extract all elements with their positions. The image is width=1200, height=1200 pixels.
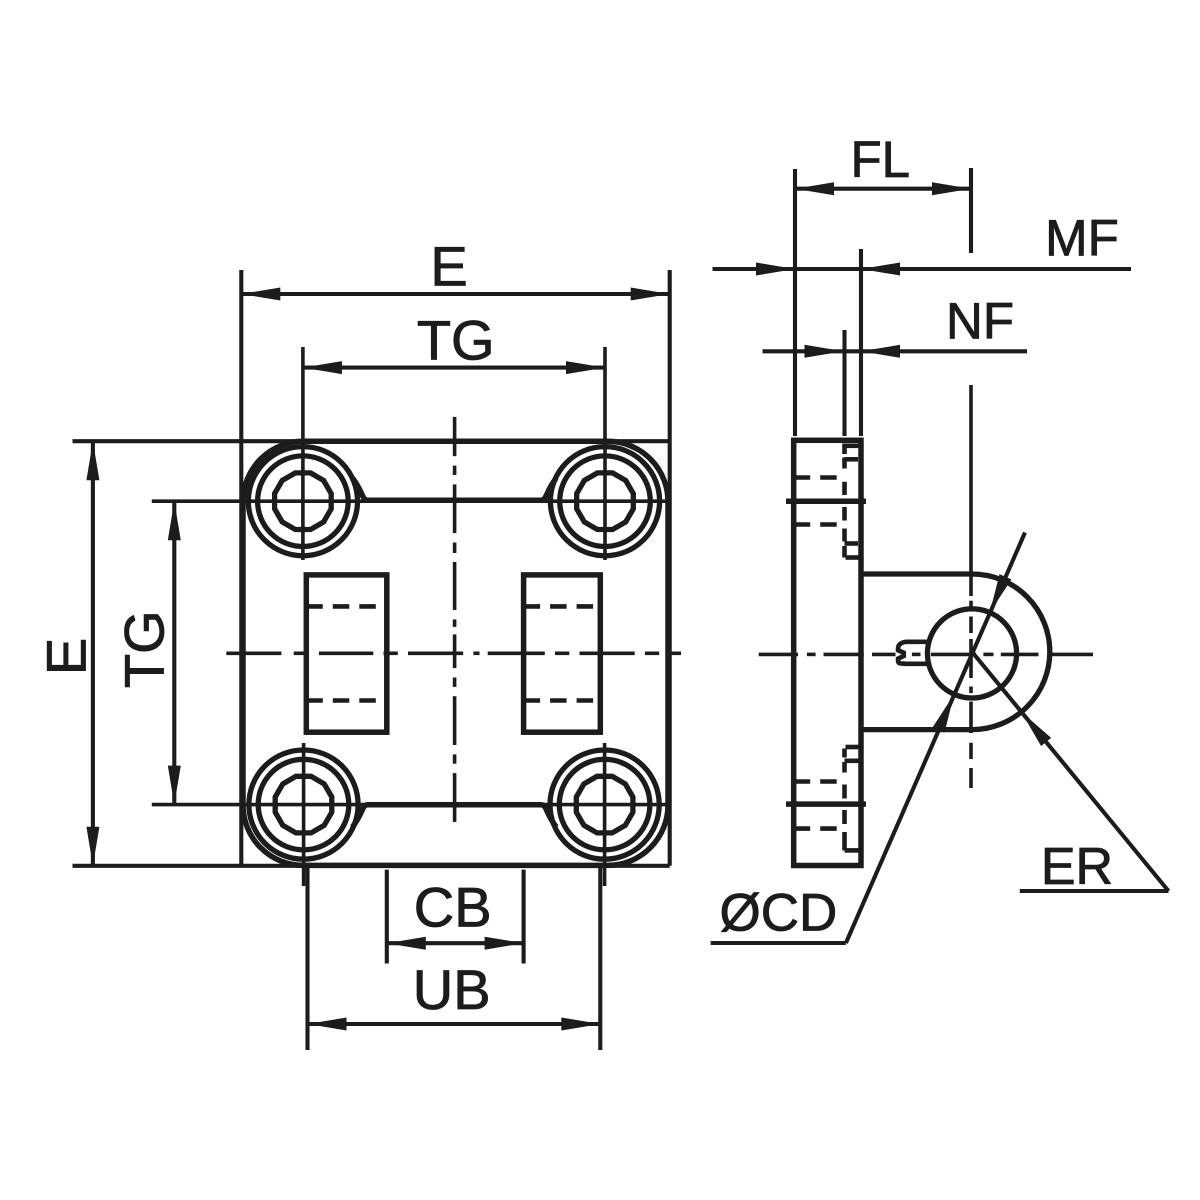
side view: hidden bore lines top hole [794, 475, 845, 480]
clevis eye lug outline [861, 574, 1050, 730]
side view: flange plate outline [794, 440, 861, 865]
front view vertical centerline [453, 417, 457, 456]
svg-text:E: E [35, 638, 98, 675]
milled edge between top bosses [353, 478, 557, 500]
left slot [306, 575, 387, 732]
dimension NF: extension line [842, 330, 846, 436]
front view horizontal centerline [226, 651, 281, 655]
dimension E left: dimension line [91, 441, 95, 866]
dimension UB: dimension line [308, 1022, 601, 1026]
side view: counterbore top hole lower [845, 541, 859, 546]
bottom-left mounting hole boss circle [249, 750, 358, 859]
svg-text:ØCD: ØCD [720, 884, 838, 943]
side view: hidden bore lines bottom hole [794, 779, 845, 784]
dimension ER: radial leader line [972, 652, 1169, 891]
top-right hole vertical centerline (TG extension) [603, 347, 607, 560]
dimension MF: extension line right [859, 249, 863, 436]
bottom-right mounting hole counterbore circle [559, 759, 650, 850]
dimension E left: extension lines [73, 439, 670, 443]
side view vertical centerline of eye [969, 385, 973, 596]
dimension NF: dimension line and arrows [763, 349, 844, 353]
svg-text:NF: NF [946, 293, 1014, 350]
left slot hidden edges [306, 604, 387, 609]
svg-text:CB: CB [414, 876, 492, 939]
side view: boss step top hole upper [846, 443, 860, 448]
side view: boss step bottom hole upper [846, 745, 860, 750]
bottom-left mounting hole bore (socket) [275, 776, 332, 833]
bottom-left mounting hole counterbore circle [258, 759, 349, 850]
side view: counterbore step segments bottom hole [842, 785, 847, 799]
top-left hole vertical centerline (TG extension) [301, 347, 305, 560]
dimension E top: extension lines [239, 270, 243, 866]
bottom-left hole vertical centerline [302, 743, 306, 886]
grease fitting nub [898, 642, 926, 664]
dimension CB: dimension line [387, 941, 524, 945]
svg-text:UB: UB [413, 958, 491, 1021]
dimension E top: dimension line [241, 292, 669, 296]
side view horizontal centerline [759, 653, 798, 657]
right slot [524, 575, 601, 732]
side view: milled recess edge top [786, 499, 866, 505]
side view: counterbore bottom hole lower [845, 848, 860, 853]
svg-text:MF: MF [1045, 209, 1119, 266]
front view: mounting plate outline [243, 441, 668, 865]
bottom-right mounting hole boss circle [550, 750, 659, 859]
dimension UB: extension lines [305, 866, 309, 1050]
dimension MF: dimension line and arrows [713, 267, 862, 271]
svg-text:TG: TG [417, 309, 495, 372]
right slot hidden edges [524, 604, 601, 609]
svg-text:ER: ER [1041, 838, 1113, 896]
top-right mounting hole boss circle [550, 447, 659, 556]
top-left mounting hole bore (socket) [275, 473, 332, 530]
dimension TG top: dimension line [303, 366, 605, 370]
dimension ER: underline [1020, 889, 1169, 893]
side view: boss step top hole lower [846, 555, 860, 560]
bottom-right mounting hole bore (socket) [576, 776, 633, 833]
dimension FL: extension lines [793, 169, 797, 436]
top-left mounting hole counterbore circle [258, 456, 349, 547]
dimension ØCD: leader line [846, 533, 1025, 944]
dimension FL: dimension line [795, 187, 971, 191]
clevis eye bore circle CD [927, 609, 1016, 698]
bottom-right hole vertical centerline [603, 743, 607, 886]
hole centerline row bottom (TG extension) [152, 803, 668, 807]
top-right mounting hole counterbore circle [560, 456, 651, 547]
top-right mounting hole bore (socket) [577, 473, 634, 530]
dimension CB: extension lines [385, 870, 389, 964]
dimension ØCD: underline [711, 941, 846, 945]
side view: milled recess edge bottom [786, 801, 866, 807]
top-left mounting hole boss circle [248, 447, 357, 556]
milled edge between bottom bosses [353, 805, 557, 827]
hole centerline row top (TG extension) [152, 499, 668, 503]
dimension TG left: dimension line [172, 501, 176, 804]
svg-text:TG: TG [113, 610, 176, 688]
side view: counterbore step segments top hole [842, 482, 847, 495]
svg-text:FL: FL [851, 131, 911, 188]
svg-text:E: E [430, 235, 467, 298]
side view: counterbore bottom hole upper [845, 758, 860, 763]
side view: counterbore top hole upper [845, 457, 859, 462]
